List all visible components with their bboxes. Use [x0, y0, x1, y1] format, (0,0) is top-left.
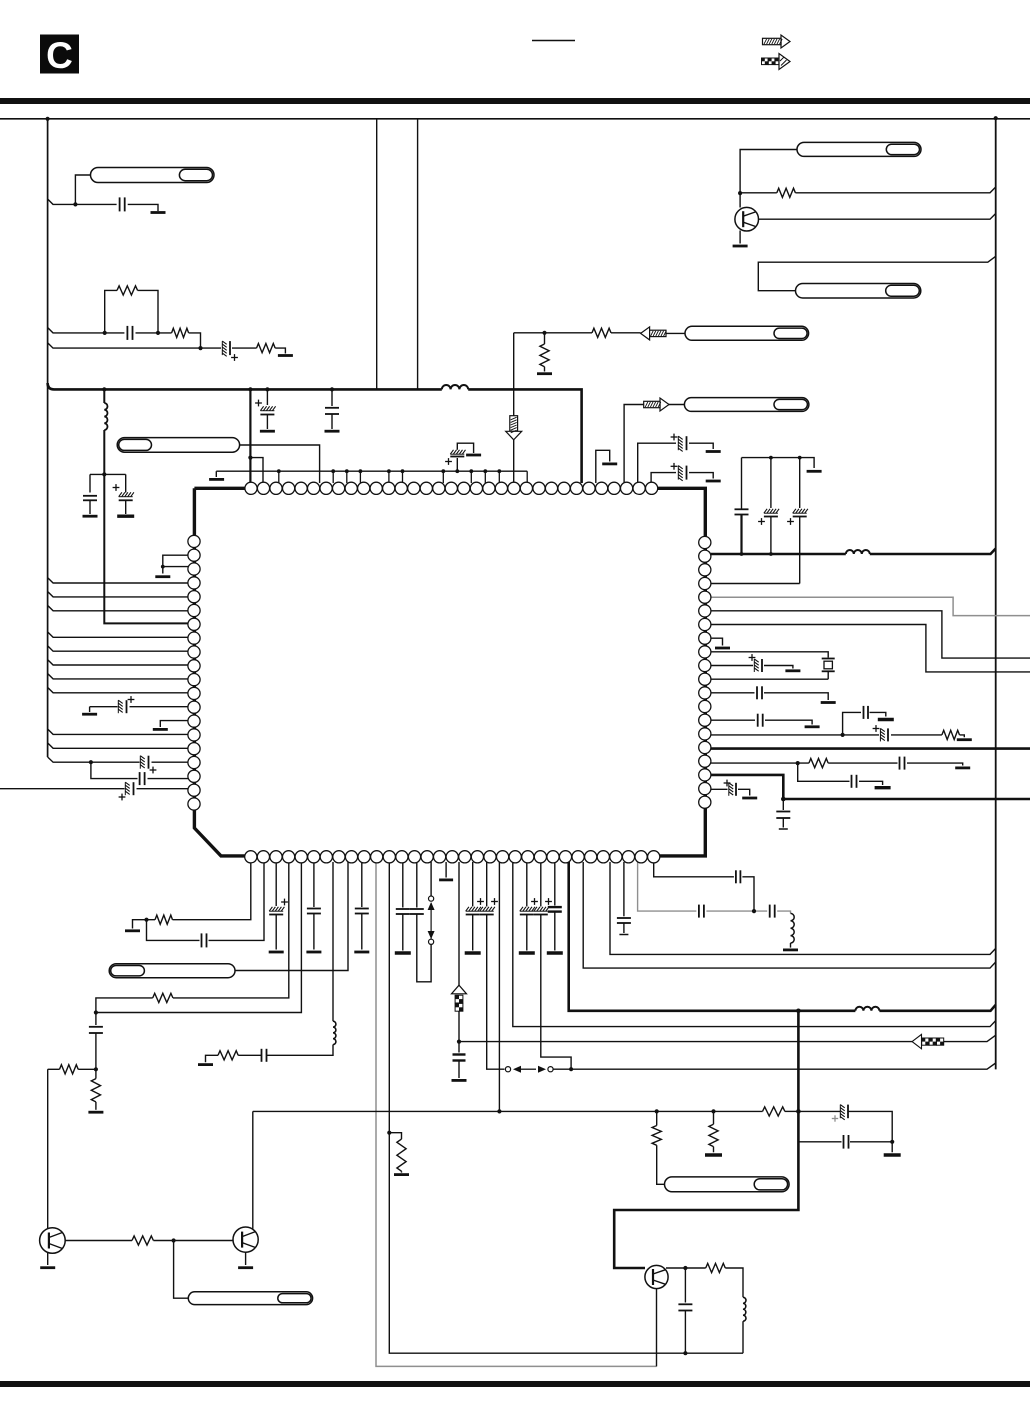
capacitor C1 — [120, 197, 125, 211]
wire L19 net — [0, 788, 188, 790]
wire B1 net — [133, 862, 251, 929]
capacitor C30 B13b — [396, 862, 410, 951]
crystal X1 — [711, 652, 835, 679]
wire L18 net — [91, 762, 188, 778]
wire B17 right net — [459, 1035, 996, 1041]
wire B21 net — [513, 862, 996, 1027]
capacitor C5 electrolytic — [113, 484, 134, 514]
capacitor C27 — [262, 1049, 267, 1062]
junction dot L17 — [89, 760, 93, 764]
transistor Q4 — [645, 1265, 668, 1288]
ground G20 thick — [878, 718, 894, 721]
resistor R14b to P8 — [652, 1111, 664, 1184]
resistor R18b — [132, 1236, 153, 1245]
resistor R5 — [592, 328, 611, 337]
ground G43 — [82, 713, 97, 716]
connector P1 — [91, 168, 215, 183]
capacitor C40 — [736, 870, 741, 883]
junction dot caps tap — [102, 472, 106, 476]
ground G11 — [706, 450, 721, 453]
transistor Q1 — [735, 207, 759, 231]
capacitor C37 B30 — [617, 862, 631, 935]
ground G19 — [957, 738, 972, 741]
ground G18 — [805, 725, 820, 728]
ground G39 — [88, 1111, 103, 1114]
wire R12pin — [711, 693, 828, 700]
wire Q3 collector riser — [252, 1111, 254, 1228]
junction dot pin1 riser — [248, 456, 252, 460]
ground G27 — [198, 1063, 213, 1066]
junction dot P1 net — [73, 202, 77, 206]
capacitor C33 electrolytic B19 — [480, 862, 505, 1069]
wire vert from top 2 — [417, 119, 419, 390]
capacitor C13 electrolytic — [787, 509, 808, 584]
wire to P9 — [174, 1241, 189, 1299]
ground G28 — [354, 951, 369, 954]
capacitor C26 B6 — [307, 862, 321, 950]
junction dot loop right — [156, 331, 160, 335]
wire R6pin — [711, 611, 1030, 658]
connector P4 — [685, 326, 809, 340]
wire L13 cap — [90, 707, 188, 712]
junction dot gray chain — [752, 909, 756, 913]
capacitor C12 electrolytic — [758, 509, 779, 554]
ground G23 — [742, 797, 757, 800]
wire Q4 emitter — [656, 1289, 658, 1367]
arrow A7 left checkered — [912, 1034, 944, 1048]
wire R17pin net — [711, 763, 963, 765]
junction dot thick top — [796, 1009, 801, 1014]
wire R18pin thick net — [711, 775, 1030, 799]
wire R8pin gnd hook — [711, 638, 723, 645]
node right bus vertical — [995, 118, 997, 1069]
connector P6 — [117, 438, 239, 453]
wire collector net y1111 — [253, 1110, 763, 1112]
wire Q2 emitter — [47, 1252, 49, 1265]
capacitor C18 — [864, 706, 869, 719]
wire Q1 collector — [758, 214, 995, 220]
resistor R3 — [257, 344, 276, 353]
junction dot R16b — [94, 1067, 98, 1071]
wire R15pin net — [711, 735, 964, 737]
capacitor C14 electrolytic — [749, 654, 762, 672]
wire top net stubs — [277, 469, 527, 483]
ground G13 — [602, 462, 617, 465]
wire R7pin — [711, 625, 1030, 672]
resistor R17b vertical — [91, 1069, 100, 1110]
connector P5 — [684, 398, 809, 412]
inductor L3 — [846, 550, 870, 554]
wire B7 chain — [206, 862, 334, 1062]
ground G36 — [783, 943, 798, 950]
inductor L7 — [743, 1297, 746, 1321]
inductor L4 — [333, 1021, 336, 1044]
ground G32 — [452, 1079, 467, 1082]
junction dot y1141 — [890, 1140, 894, 1144]
ground G31 B16 stub — [439, 862, 453, 880]
ground G4 — [537, 372, 552, 375]
ic U1 left pins — [188, 535, 200, 810]
ground G15 — [715, 647, 730, 650]
resistor R4 — [777, 188, 796, 197]
junction dot right bus top — [994, 116, 998, 120]
resistor R2 — [172, 328, 189, 337]
wire B32 gray chain — [638, 862, 791, 913]
junction dot B1 net — [144, 918, 148, 922]
capacitor C35 electrolytic B23 — [534, 862, 571, 1069]
wire R2pin thick rail — [711, 549, 996, 555]
ground G6 — [117, 515, 134, 518]
wire B2 net — [147, 862, 265, 940]
wire R4 net — [740, 187, 996, 193]
resistor R19b — [706, 1263, 726, 1272]
resistor R15b gnd — [709, 1111, 718, 1152]
frame bottom thick border — [0, 1381, 1030, 1387]
wire L2 L3 gnd hook — [161, 555, 188, 573]
wire P7 to pin — [235, 862, 348, 971]
ground G7 — [260, 430, 275, 433]
wire Q2 base — [47, 1069, 49, 1229]
capacitor C20 — [852, 775, 857, 788]
wire caps pair top — [90, 474, 126, 492]
wire R4pin — [711, 583, 800, 585]
wire R19pin — [711, 789, 750, 795]
wire gnd hook riser — [596, 450, 610, 483]
resistor R10b — [153, 993, 173, 1002]
wire pin21 riser — [513, 333, 515, 483]
node left rail vertical — [47, 119, 49, 757]
ground G17 — [821, 701, 836, 704]
capacitor C47 electrolytic — [119, 782, 134, 800]
wire caps trio top — [742, 458, 815, 510]
wire supply bus — [48, 383, 582, 483]
junction dot R15 net — [841, 733, 845, 737]
legend arrow A1 — [763, 35, 791, 48]
capacitor C23 — [202, 933, 207, 947]
ground G30 thick — [395, 951, 411, 954]
resistor R1 — [117, 286, 138, 295]
junction dot B12 res tap — [387, 1131, 391, 1135]
junction dot left rail top — [46, 117, 50, 121]
wire L17 net — [48, 757, 188, 762]
capacitor C9 electrolytic — [671, 434, 687, 452]
capacitor C34 electrolytic B22 — [520, 862, 538, 951]
wire A4 tail riser — [624, 405, 644, 484]
ground G8 — [325, 430, 340, 433]
capacitor C24 electrolytic B3 — [269, 862, 288, 950]
ground G25 — [269, 951, 284, 954]
capacitor C39 — [770, 905, 775, 918]
title dash — [532, 40, 575, 42]
wire gnd stub — [891, 1142, 893, 1153]
inductor L2 vertical — [104, 389, 107, 430]
resistor R11b — [218, 1051, 238, 1060]
wire R16b net — [48, 1068, 96, 1070]
wire C3 net — [48, 343, 286, 354]
capacitor C42 — [844, 1135, 849, 1149]
junction dot net A — [542, 331, 546, 335]
capacitor C10 electrolytic — [671, 463, 687, 481]
junction dot Q1 base — [738, 191, 742, 195]
capacitor C32 electrolytic B18 — [466, 862, 484, 951]
wire R5pin gray — [711, 597, 1030, 615]
junction dot B5 net — [94, 1010, 98, 1014]
ground G35 thick — [547, 951, 563, 954]
connector P2 — [797, 142, 921, 156]
wire cap C1 net — [48, 199, 158, 211]
ground G3 — [733, 245, 748, 248]
wire B17 arrow chain — [458, 862, 460, 1042]
trimmer pair B14 — [428, 862, 435, 944]
wire Q3 emitter — [245, 1252, 247, 1265]
ground G42 — [155, 575, 170, 578]
transistor Q3 — [233, 1227, 258, 1252]
ic U1 right pins — [699, 536, 711, 808]
ground G1 — [151, 211, 166, 214]
connector P7 — [109, 964, 235, 978]
wire Q4 collector net — [666, 1268, 743, 1297]
ground G38 thick — [705, 1153, 722, 1156]
resistor R12b vertical — [389, 1133, 406, 1173]
ground G34 thick — [519, 951, 535, 954]
capacitor C4 — [83, 496, 97, 514]
capacitor C17 electrolytic — [873, 725, 888, 741]
ground G5 — [83, 515, 98, 518]
ground G22 thick — [875, 786, 891, 789]
wire Q4 base thick path — [614, 1011, 798, 1268]
ic U1 top pins — [245, 482, 658, 494]
wire B28 net — [610, 862, 996, 954]
wire left pin taps — [48, 578, 188, 749]
capacitor C43 — [678, 1268, 692, 1353]
wire C2 net — [48, 328, 201, 349]
capacitor C11 — [735, 509, 749, 554]
wire signal net A — [514, 332, 641, 334]
inductor L1 — [442, 385, 468, 389]
wire cap A riser — [638, 443, 714, 483]
arrow A5 down — [506, 416, 522, 440]
ground G14 — [807, 470, 822, 473]
capacitor C28 B9 — [355, 862, 369, 950]
capacitor C7 — [325, 389, 339, 429]
junction dot C43 bottom — [683, 1351, 687, 1355]
capacitor C15 — [757, 686, 762, 699]
capacitor C19 — [900, 757, 905, 770]
ground G33 thick — [465, 951, 481, 954]
ground G41 — [238, 1266, 253, 1269]
wire R1 loop top — [105, 290, 158, 333]
junction dot C3 net — [198, 346, 202, 350]
wire B4 net — [96, 862, 289, 1013]
resistor R16b — [60, 1065, 79, 1074]
capacitor C8 electrolytic on net — [445, 443, 474, 471]
capacitor C36 B24 — [548, 862, 562, 951]
wire branch pin2 — [250, 458, 263, 483]
junction dot R17 net — [796, 761, 800, 765]
junction dot B17 — [457, 1040, 461, 1044]
wire B11 gray long — [376, 862, 657, 1366]
frame top thin border line — [0, 118, 1030, 120]
wire B12 long — [389, 862, 743, 1353]
junction dot Q4 collector — [683, 1266, 687, 1270]
wire Q1 emitter — [739, 231, 741, 244]
ground G16 — [785, 669, 800, 672]
transistor Q2 — [40, 1228, 66, 1254]
wire B33 net — [654, 862, 754, 911]
wire R17 branch — [798, 763, 883, 785]
resistor R13b — [763, 1107, 799, 1116]
svg-text:C: C — [46, 35, 73, 76]
wire L2 down to pin L7 — [104, 430, 188, 623]
wire P6 to pin — [240, 445, 320, 483]
junction dot base net — [172, 1238, 176, 1242]
wire R15 branch up — [843, 712, 886, 735]
capacitor C2 — [127, 326, 132, 340]
connector P3 — [796, 284, 921, 299]
ground G40 — [40, 1266, 55, 1269]
connector P9 — [188, 1292, 312, 1305]
wire pin1 riser thick — [249, 389, 251, 483]
inductor L6 — [791, 913, 795, 943]
frame top thick border — [0, 98, 1030, 104]
wire cap net y1141 — [798, 1141, 892, 1143]
wire L7 down — [742, 1321, 744, 1353]
resistor R6 vertical — [540, 333, 549, 372]
capacitor C3 electrolytic — [222, 341, 238, 361]
resistor R7r — [942, 730, 960, 739]
wire L14 gnd hook — [160, 721, 188, 727]
capacitor C41 electrolytic — [798, 1105, 892, 1142]
junction dots caps trio — [769, 456, 802, 460]
arrow A3 into P4 — [641, 327, 685, 340]
wire P1 to node — [75, 175, 90, 204]
junction dot C8 net — [455, 469, 459, 473]
wire B25 thick rail — [569, 862, 996, 1011]
resistor R9b — [155, 915, 173, 924]
capacitor C25 — [89, 1013, 103, 1070]
wire R16pin thick — [711, 747, 1030, 750]
arrow A6 up — [452, 985, 467, 1011]
wire B26 net — [583, 862, 996, 968]
wire R10pin — [711, 666, 793, 669]
arrow A4 into P5 — [644, 398, 685, 411]
junction dots on bus — [102, 387, 334, 391]
ground G29 — [394, 1173, 409, 1176]
capacitor C44 electrolytic — [118, 696, 134, 713]
wire cap B riser — [651, 473, 713, 483]
capacitor C38 — [699, 905, 704, 918]
wire B20 long — [498, 862, 500, 1111]
capacitor C16 — [758, 714, 763, 727]
ground G24 — [125, 929, 140, 932]
ic U1 body outline — [194, 488, 705, 856]
test points arrows net — [505, 1063, 995, 1073]
wire vert from top 1 — [376, 119, 378, 390]
wire top common net — [216, 471, 527, 477]
wire R14pin — [711, 720, 812, 724]
capacitor C45 electrolytic — [140, 756, 156, 774]
ground G10 — [466, 454, 481, 457]
capacitor C21 — [776, 799, 790, 829]
capacitor C31 B17 — [453, 1042, 466, 1078]
section label C box — [40, 35, 79, 77]
wire Q2 collector net — [65, 1240, 235, 1242]
junction dots y1111 — [497, 1109, 800, 1114]
ground G21 — [955, 767, 970, 770]
connector P8 — [665, 1177, 790, 1192]
capacitor C29 B13 — [410, 862, 431, 982]
resistor R8r — [809, 759, 828, 768]
inductor L5 — [855, 1007, 879, 1011]
ground G37 thick — [884, 1153, 901, 1156]
ground G2 — [278, 354, 293, 357]
legend arrow A2 — [762, 54, 791, 70]
ground G26 — [306, 951, 321, 954]
ground G44 — [153, 728, 168, 731]
junction dot arrows net — [569, 1067, 573, 1071]
wire P3 to bus — [758, 256, 995, 290]
junction dot loop left — [103, 331, 107, 335]
junction dots on R2 rail — [740, 552, 773, 556]
wire P2 to Q1 base — [740, 150, 797, 208]
capacitor C6 electrolytic — [255, 389, 276, 429]
ic U1 bottom pins — [245, 851, 660, 863]
ground G12 — [706, 480, 721, 483]
capacitor C22 electrolytic — [724, 780, 736, 796]
capacitor C46 — [140, 772, 145, 785]
wire B5 net — [96, 862, 302, 1013]
wire R11pin — [711, 678, 828, 680]
ground G9 — [209, 478, 224, 481]
junction dot R18 net — [781, 797, 786, 802]
